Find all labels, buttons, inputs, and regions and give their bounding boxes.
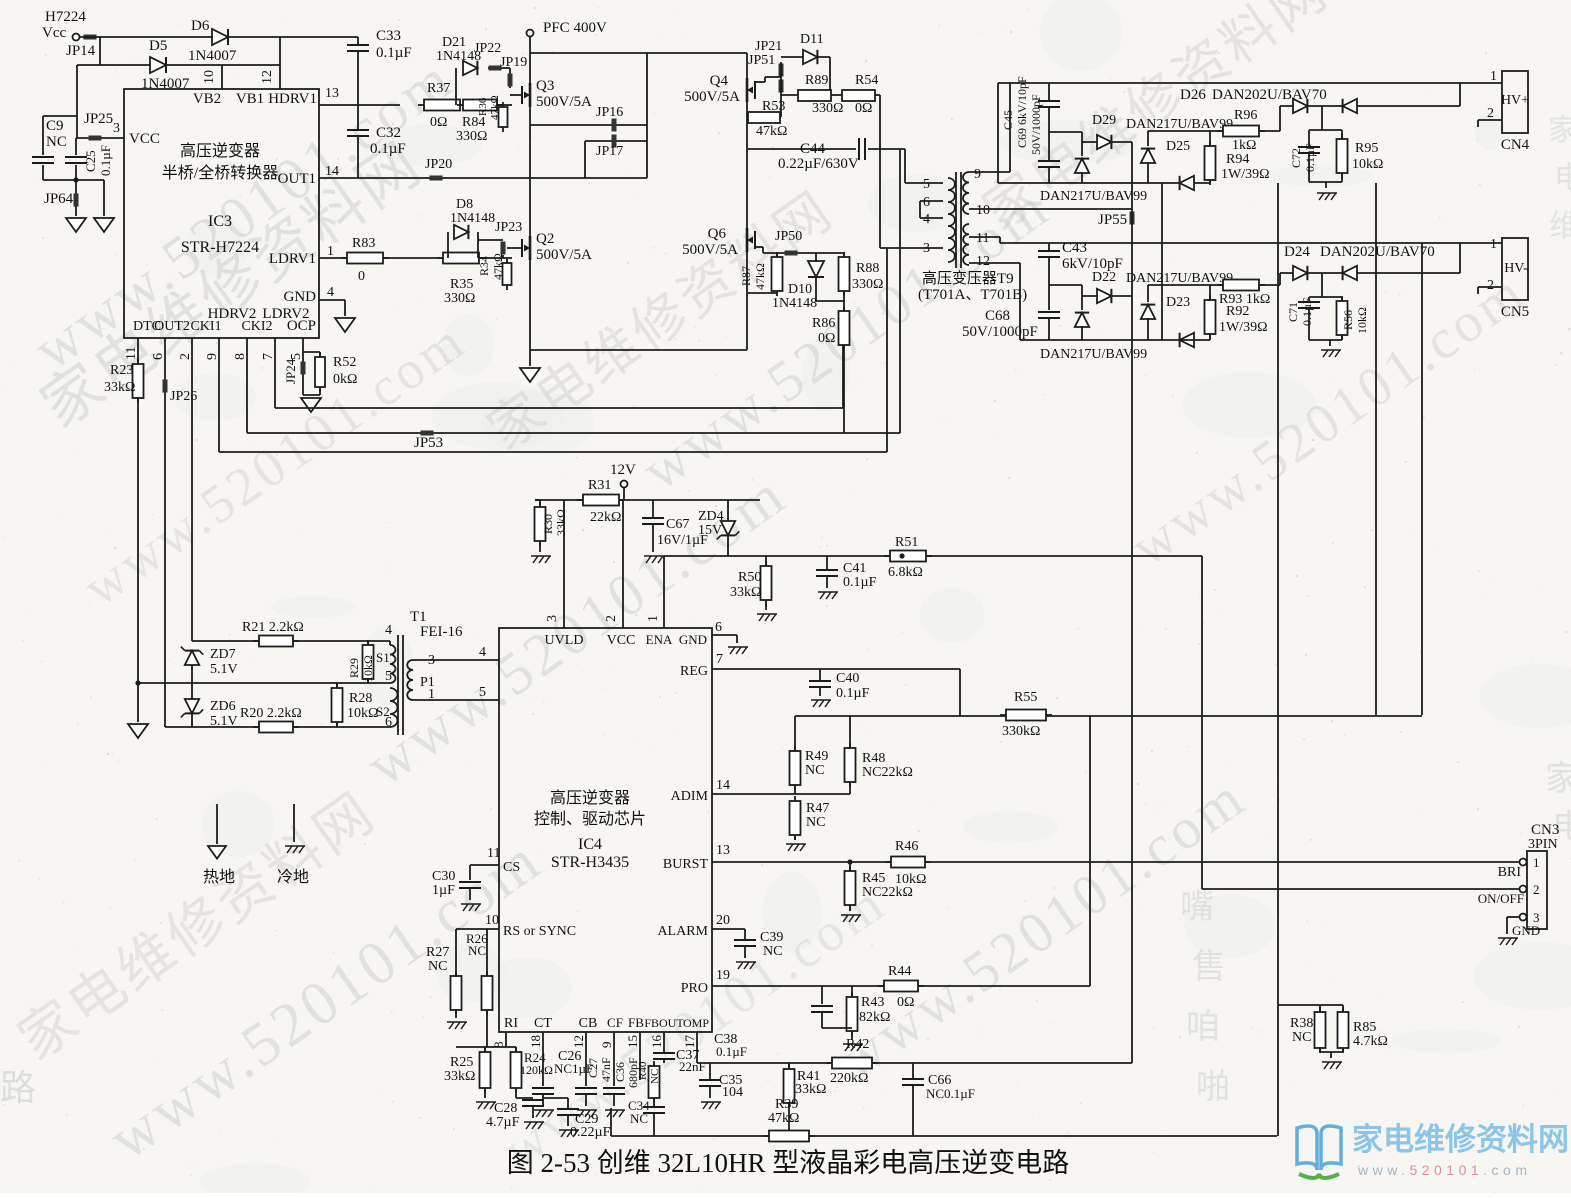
svg-text:JP14: JP14 — [66, 43, 96, 59]
svg-text:C45: C45 — [1001, 110, 1015, 130]
svg-text:C27: C27 — [586, 1058, 600, 1078]
svg-text:12: 12 — [260, 70, 275, 84]
svg-text:JP55: JP55 — [1098, 212, 1127, 228]
svg-text:0Ω: 0Ω — [855, 101, 872, 116]
svg-text:47kΩ: 47kΩ — [768, 1111, 799, 1126]
svg-text:家: 家 — [1548, 114, 1571, 147]
svg-text:JP64: JP64 — [44, 191, 74, 207]
svg-text:0.1µF: 0.1µF — [716, 1044, 747, 1059]
svg-text:D8: D8 — [456, 197, 473, 212]
svg-text:20: 20 — [716, 913, 730, 928]
svg-text:0.1µF: 0.1µF — [376, 45, 412, 61]
svg-text:Q3: Q3 — [536, 78, 554, 94]
svg-text:330Ω: 330Ω — [812, 101, 843, 116]
svg-text:R51: R51 — [895, 535, 918, 550]
svg-text:JP19: JP19 — [500, 55, 527, 70]
svg-text:50V/1000pF: 50V/1000pF — [962, 324, 1038, 340]
svg-text:JP50: JP50 — [775, 229, 802, 244]
svg-text:22kΩ: 22kΩ — [590, 510, 621, 525]
svg-text:0.1µF: 0.1µF — [370, 141, 406, 157]
svg-text:7: 7 — [716, 652, 723, 667]
svg-text:R39: R39 — [775, 1097, 798, 1112]
svg-text:NC22kΩ: NC22kΩ — [862, 765, 913, 780]
svg-text:R25: R25 — [450, 1055, 473, 1070]
svg-text:ON/OFF: ON/OFF — [1478, 891, 1524, 906]
svg-text:C69 6kV/10pF: C69 6kV/10pF — [1015, 76, 1029, 148]
svg-text:16: 16 — [649, 1035, 664, 1049]
svg-text:4: 4 — [385, 623, 392, 638]
svg-text:JP20: JP20 — [425, 157, 452, 172]
svg-text:1µF: 1µF — [432, 883, 455, 898]
svg-text:330kΩ: 330kΩ — [1002, 724, 1040, 739]
svg-text:R37: R37 — [427, 81, 450, 96]
svg-text:NC: NC — [806, 815, 825, 830]
svg-text:R87: R87 — [739, 266, 753, 286]
svg-text:DAN217U/BAV99: DAN217U/BAV99 — [1126, 271, 1233, 286]
svg-text:R88: R88 — [856, 261, 879, 276]
svg-text:0kΩ: 0kΩ — [333, 372, 357, 387]
svg-text:7: 7 — [261, 353, 276, 360]
svg-text:11: 11 — [487, 846, 500, 861]
svg-text:1N4148: 1N4148 — [450, 211, 495, 226]
svg-text:GND: GND — [284, 289, 317, 305]
svg-text:104: 104 — [722, 1085, 743, 1100]
svg-text:13: 13 — [325, 86, 339, 101]
svg-text:4: 4 — [923, 212, 930, 227]
svg-text:D10: D10 — [788, 282, 812, 297]
svg-text:4.7µF: 4.7µF — [486, 1115, 520, 1130]
svg-text:R40: R40 — [637, 1061, 649, 1080]
svg-text:5: 5 — [385, 669, 392, 684]
svg-text:D29: D29 — [1092, 113, 1116, 128]
svg-text:R49: R49 — [805, 749, 828, 764]
svg-text:OUT2: OUT2 — [154, 319, 190, 334]
svg-text:12V: 12V — [610, 462, 636, 478]
svg-text:2: 2 — [1487, 278, 1494, 293]
svg-text:9: 9 — [974, 167, 981, 182]
svg-text:高压变压器T9: 高压变压器T9 — [922, 270, 1014, 287]
svg-text:NC: NC — [1292, 1030, 1311, 1045]
svg-text:P1: P1 — [420, 675, 435, 690]
svg-text:ZD7: ZD7 — [210, 647, 236, 662]
svg-text:500V/5A: 500V/5A — [682, 242, 738, 258]
svg-text:9: 9 — [599, 1042, 614, 1049]
svg-text:PRO: PRO — [681, 981, 708, 996]
svg-text:10kΩ: 10kΩ — [347, 706, 378, 721]
svg-text:0Ω: 0Ω — [897, 995, 914, 1010]
svg-text:售: 售 — [1192, 948, 1226, 986]
svg-text:ADIM: ADIM — [671, 789, 709, 804]
svg-text:15: 15 — [625, 1035, 640, 1048]
svg-text:BURST: BURST — [663, 857, 709, 872]
svg-text:CN4: CN4 — [1501, 137, 1530, 153]
svg-text:Vcc: Vcc — [42, 25, 66, 41]
svg-text:33kΩ: 33kΩ — [554, 509, 568, 536]
svg-text:5: 5 — [479, 685, 486, 700]
svg-text:半桥/全桥转换器: 半桥/全桥转换器 — [162, 164, 278, 182]
svg-text:0Ω: 0Ω — [430, 115, 447, 130]
svg-text:19: 19 — [716, 968, 730, 983]
svg-text:REG: REG — [680, 664, 708, 679]
svg-text:PFC 400V: PFC 400V — [543, 20, 607, 36]
svg-text:H7224: H7224 — [45, 9, 86, 25]
svg-text:CF: CF — [607, 1015, 623, 1030]
svg-text:1: 1 — [646, 615, 661, 622]
svg-text:RI: RI — [504, 1016, 518, 1031]
svg-text:DAN217U/BAV99: DAN217U/BAV99 — [1040, 189, 1147, 204]
svg-text:OMP: OMP — [683, 1016, 709, 1030]
svg-text:CS: CS — [503, 860, 520, 875]
svg-text:R50: R50 — [738, 570, 761, 585]
svg-text:JP17: JP17 — [596, 144, 623, 159]
svg-text:33kΩ: 33kΩ — [444, 1069, 475, 1084]
svg-text:C40: C40 — [836, 671, 859, 686]
svg-text:咱: 咱 — [1186, 1008, 1220, 1046]
svg-text:热地: 热地 — [203, 868, 235, 886]
svg-text:FBOUT: FBOUT — [644, 1016, 684, 1030]
svg-text:NC: NC — [805, 763, 824, 778]
svg-text:R83: R83 — [352, 236, 375, 251]
svg-text:家电维修资料网: 家电维修资料网 — [1352, 1122, 1569, 1157]
svg-text:D5: D5 — [149, 38, 167, 54]
svg-text:GND: GND — [1512, 923, 1540, 938]
svg-text:15V: 15V — [698, 523, 722, 538]
svg-text:R31: R31 — [588, 478, 611, 493]
svg-text:电: 电 — [1554, 162, 1571, 195]
svg-text:3PIN: 3PIN — [1528, 837, 1558, 852]
svg-text:18: 18 — [528, 1035, 543, 1048]
svg-text:0.1µF: 0.1µF — [1303, 143, 1317, 172]
svg-text:220kΩ: 220kΩ — [830, 1071, 868, 1086]
svg-text:NC0.1µF: NC0.1µF — [926, 1086, 975, 1101]
svg-text:STR-H3435: STR-H3435 — [551, 854, 629, 871]
svg-text:0.1µF: 0.1µF — [98, 145, 113, 176]
svg-text:OUT1: OUT1 — [278, 171, 316, 187]
svg-text:8: 8 — [233, 353, 248, 360]
svg-text:14: 14 — [716, 778, 730, 793]
svg-text:CN5: CN5 — [1501, 304, 1529, 320]
svg-text:冷地: 冷地 — [277, 868, 309, 886]
svg-text:C32: C32 — [376, 125, 401, 141]
svg-text:2: 2 — [1533, 882, 1540, 897]
svg-text:IC3: IC3 — [208, 213, 232, 230]
svg-text:0: 0 — [358, 269, 365, 284]
svg-text:1N4148: 1N4148 — [772, 296, 817, 311]
svg-text:R43: R43 — [861, 995, 884, 1010]
svg-text:330Ω: 330Ω — [852, 277, 883, 292]
svg-text:NC: NC — [649, 1069, 661, 1084]
svg-text:控制、驱动芯片: 控制、驱动芯片 — [534, 810, 646, 828]
svg-text:JP16: JP16 — [596, 105, 623, 120]
svg-text:2: 2 — [178, 353, 193, 360]
svg-text:FEI-16: FEI-16 — [420, 624, 463, 640]
svg-text:CKI2: CKI2 — [241, 319, 272, 334]
svg-text:NC: NC — [763, 944, 782, 959]
svg-text:12: 12 — [571, 1035, 586, 1048]
svg-text:1kΩ: 1kΩ — [1232, 138, 1256, 153]
svg-text:R29: R29 — [347, 658, 361, 678]
svg-text:33kΩ: 33kΩ — [795, 1082, 826, 1097]
svg-text:R48: R48 — [862, 751, 885, 766]
svg-text:UVLD: UVLD — [545, 633, 584, 648]
svg-text:11: 11 — [976, 231, 989, 246]
svg-text:JP25: JP25 — [84, 111, 113, 127]
svg-text:22nF: 22nF — [679, 1059, 706, 1074]
svg-text:2: 2 — [604, 615, 619, 622]
svg-text:1: 1 — [327, 244, 334, 259]
svg-text:6: 6 — [923, 195, 930, 210]
svg-text:C68: C68 — [985, 308, 1010, 324]
svg-text:D24: D24 — [1284, 244, 1310, 260]
svg-text:C9: C9 — [46, 118, 64, 134]
svg-text:10kΩ: 10kΩ — [1355, 307, 1369, 334]
svg-text:R85: R85 — [1353, 1020, 1376, 1035]
svg-text:Q2: Q2 — [536, 231, 554, 247]
svg-text:R45: R45 — [862, 871, 885, 886]
svg-text:0.22µF: 0.22µF — [570, 1125, 611, 1140]
svg-text:82kΩ: 82kΩ — [859, 1010, 890, 1025]
svg-text:1W/39Ω: 1W/39Ω — [1219, 320, 1268, 335]
svg-text:GND: GND — [679, 632, 707, 647]
svg-text:R44: R44 — [888, 964, 911, 979]
svg-text:R92: R92 — [1226, 304, 1249, 319]
svg-text:FB: FB — [628, 1015, 644, 1030]
svg-text:ENA: ENA — [646, 632, 673, 647]
svg-text:JP51: JP51 — [748, 53, 775, 68]
svg-text:R54: R54 — [855, 73, 878, 88]
svg-text:4: 4 — [479, 645, 486, 660]
svg-text:17: 17 — [682, 1035, 697, 1049]
svg-text:高压逆变器: 高压逆变器 — [550, 789, 630, 807]
svg-text:0.22µF/630V: 0.22µF/630V — [778, 156, 859, 172]
svg-text:6: 6 — [151, 353, 166, 360]
svg-text:CT: CT — [534, 1016, 552, 1031]
svg-text:120kΩ: 120kΩ — [520, 1063, 553, 1077]
svg-text:R42: R42 — [846, 1037, 869, 1052]
svg-text:47kΩ: 47kΩ — [753, 263, 767, 290]
svg-text:0.1µF: 0.1µF — [843, 575, 877, 590]
svg-text:NC: NC — [46, 134, 67, 150]
svg-text:1W/39Ω: 1W/39Ω — [1221, 167, 1270, 182]
svg-text:DAN217U/BAV99: DAN217U/BAV99 — [1126, 117, 1233, 132]
svg-text:D22: D22 — [1092, 270, 1116, 285]
svg-text:1: 1 — [1490, 237, 1497, 252]
svg-text:10kΩ: 10kΩ — [361, 655, 375, 682]
svg-text:3: 3 — [113, 121, 120, 136]
svg-text:C67: C67 — [666, 517, 689, 532]
svg-text:HV-: HV- — [1504, 261, 1528, 276]
svg-text:IC4: IC4 — [578, 836, 602, 853]
svg-text:图 2-53 创维 32L10HR 型液晶彩电高压逆变电路: 图 2-53 创维 32L10HR 型液晶彩电高压逆变电路 — [507, 1148, 1070, 1178]
svg-text:6.8kΩ: 6.8kΩ — [888, 565, 923, 580]
svg-text:S2: S2 — [376, 704, 390, 719]
svg-text:ZD4: ZD4 — [698, 509, 724, 524]
svg-text:OCP: OCP — [287, 318, 316, 334]
svg-text:JP24: JP24 — [283, 358, 298, 384]
svg-text:C41: C41 — [843, 561, 866, 576]
svg-text:0Ω: 0Ω — [818, 331, 835, 346]
svg-text:C36: C36 — [613, 1062, 627, 1082]
svg-text:R47: R47 — [806, 801, 829, 816]
svg-text:R27: R27 — [426, 945, 449, 960]
svg-text:D26: D26 — [1180, 87, 1206, 103]
svg-text:JP26: JP26 — [170, 389, 197, 404]
svg-text:HV+: HV+ — [1501, 93, 1529, 108]
svg-text:12: 12 — [976, 254, 990, 269]
svg-text:D21: D21 — [442, 35, 466, 50]
svg-text:VB1: VB1 — [236, 91, 264, 107]
svg-text:JP53: JP53 — [414, 435, 443, 451]
svg-text:DAN202U/BAV70: DAN202U/BAV70 — [1320, 244, 1435, 260]
svg-text:C33: C33 — [376, 28, 401, 44]
svg-text:2: 2 — [1487, 106, 1494, 121]
svg-text:C39: C39 — [760, 930, 783, 945]
svg-text:www.520101.com: www.520101.com — [1357, 1162, 1532, 1178]
svg-text:10: 10 — [202, 70, 217, 84]
svg-text:14: 14 — [325, 164, 339, 179]
svg-text:R20 2.2kΩ: R20 2.2kΩ — [240, 706, 302, 721]
svg-text:R34: R34 — [477, 256, 491, 276]
svg-text:维: 维 — [1549, 210, 1571, 243]
svg-text:R84: R84 — [462, 115, 485, 130]
svg-text:33kΩ: 33kΩ — [104, 380, 135, 395]
svg-text:10: 10 — [976, 203, 990, 218]
svg-text:9: 9 — [205, 353, 220, 360]
svg-text:(T701A、T701B): (T701A、T701B) — [918, 287, 1027, 303]
svg-text:NC: NC — [630, 1111, 648, 1126]
svg-text:Q6: Q6 — [708, 226, 727, 242]
svg-text:C28: C28 — [494, 1101, 517, 1116]
svg-text:NC22kΩ: NC22kΩ — [862, 885, 913, 900]
svg-text:R55: R55 — [1014, 690, 1037, 705]
svg-text:R38: R38 — [1290, 1016, 1313, 1031]
svg-text:R94: R94 — [1226, 152, 1249, 167]
svg-text:6: 6 — [715, 620, 722, 635]
svg-text:R46: R46 — [895, 839, 918, 854]
svg-text:T1: T1 — [410, 609, 427, 625]
svg-text:JP22: JP22 — [474, 41, 501, 56]
svg-text:47nF: 47nF — [599, 1057, 613, 1082]
svg-text:S1: S1 — [376, 650, 390, 665]
svg-text:VCC: VCC — [607, 633, 636, 648]
svg-text:LDRV1: LDRV1 — [269, 251, 316, 267]
svg-text:RS or SYNC: RS or SYNC — [503, 924, 576, 939]
svg-text:R86: R86 — [812, 316, 835, 331]
svg-text:家: 家 — [1545, 760, 1571, 798]
svg-text:VCC: VCC — [129, 131, 160, 147]
svg-text:50V/1000pF: 50V/1000pF — [1029, 94, 1043, 155]
svg-text:500V/5A: 500V/5A — [536, 94, 592, 110]
svg-text:R21 2.2kΩ: R21 2.2kΩ — [242, 620, 304, 635]
svg-text:R56: R56 — [1341, 310, 1355, 330]
svg-text:R96: R96 — [1234, 108, 1257, 123]
svg-text:ALARM: ALARM — [657, 924, 708, 939]
svg-text:BRI: BRI — [1498, 865, 1522, 880]
svg-text:CN3: CN3 — [1531, 822, 1559, 838]
svg-text:CB: CB — [579, 1016, 598, 1031]
svg-text:DAN202U/BAV70: DAN202U/BAV70 — [1212, 87, 1327, 103]
svg-text:CKI1: CKI1 — [190, 319, 221, 334]
svg-text:R53: R53 — [762, 99, 785, 114]
svg-text:NC: NC — [468, 943, 486, 958]
svg-text:Q4: Q4 — [710, 73, 729, 89]
svg-text:4.7kΩ: 4.7kΩ — [1353, 1034, 1388, 1049]
svg-text:500V/5A: 500V/5A — [684, 89, 740, 105]
svg-text:3: 3 — [545, 615, 560, 622]
svg-text:500V/5A: 500V/5A — [536, 247, 592, 263]
svg-text:33kΩ: 33kΩ — [730, 585, 761, 600]
svg-text:R35: R35 — [450, 277, 473, 292]
svg-text:C71: C71 — [1286, 302, 1300, 322]
svg-text:VB2: VB2 — [193, 91, 221, 107]
svg-text:DAN217U/BAV99: DAN217U/BAV99 — [1040, 347, 1147, 362]
svg-text:HDRV1: HDRV1 — [268, 91, 317, 107]
svg-text:330Ω: 330Ω — [456, 129, 487, 144]
svg-text:D25: D25 — [1166, 139, 1190, 154]
svg-text:13: 13 — [716, 843, 730, 858]
svg-text:C43: C43 — [1062, 240, 1087, 256]
svg-text:R28: R28 — [349, 691, 372, 706]
svg-text:C25: C25 — [83, 150, 98, 172]
svg-text:R52: R52 — [333, 355, 356, 370]
svg-text:高压逆变器: 高压逆变器 — [180, 142, 260, 160]
svg-text:R30: R30 — [541, 514, 555, 534]
svg-text:嘴: 嘴 — [1180, 889, 1214, 926]
svg-text:11: 11 — [124, 347, 139, 360]
svg-text:R89: R89 — [805, 73, 828, 88]
svg-text:D6: D6 — [191, 18, 210, 34]
svg-text:1: 1 — [1533, 855, 1540, 870]
svg-text:啪: 啪 — [1196, 1068, 1230, 1106]
svg-text:0.1µF: 0.1µF — [1300, 297, 1314, 326]
svg-text:C30: C30 — [432, 869, 455, 884]
svg-text:R95: R95 — [1355, 141, 1378, 156]
svg-text:10: 10 — [485, 913, 499, 928]
svg-text:C44: C44 — [800, 141, 826, 157]
svg-text:JP23: JP23 — [495, 220, 522, 235]
svg-text:STR-H7224: STR-H7224 — [181, 239, 259, 256]
svg-text:ZD6: ZD6 — [210, 699, 236, 714]
svg-text:1N4007: 1N4007 — [188, 48, 237, 64]
svg-text:路: 路 — [0, 1068, 36, 1108]
svg-text:R36: R36 — [477, 97, 489, 116]
svg-text:47kΩ: 47kΩ — [756, 124, 787, 139]
svg-text:D11: D11 — [800, 32, 824, 47]
svg-text:1: 1 — [1490, 69, 1497, 84]
svg-text:330Ω: 330Ω — [444, 291, 475, 306]
svg-text:D23: D23 — [1166, 295, 1190, 310]
svg-text:5.1V: 5.1V — [210, 662, 238, 677]
svg-text:10kΩ: 10kΩ — [1352, 157, 1383, 172]
svg-text:4: 4 — [327, 285, 334, 300]
svg-text:C72: C72 — [1289, 148, 1303, 168]
svg-text:JP21: JP21 — [755, 39, 782, 54]
svg-text:R23: R23 — [110, 363, 133, 378]
svg-text:5: 5 — [923, 177, 930, 192]
svg-text:NC: NC — [428, 959, 447, 974]
svg-text:0.1µF: 0.1µF — [836, 686, 870, 701]
